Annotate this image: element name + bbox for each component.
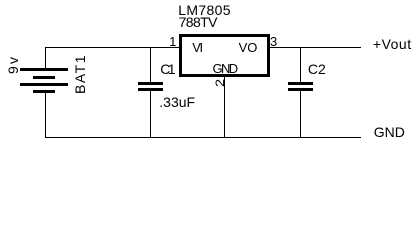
pin number 1 [169, 35, 176, 48]
wire: top rail from battery to regulator pin 1 [45, 47, 180, 48]
pin label VO [239, 41, 258, 54]
label GND (output rail) [374, 125, 405, 139]
wire: C2 bottom lead [300, 91, 301, 137]
pin number 3 [270, 35, 277, 48]
label C2 [308, 62, 326, 76]
capacitor C2 top plate [288, 82, 314, 85]
label 788TV [179, 15, 217, 29]
wire: bottom ground rail [45, 137, 361, 139]
pin label GND [213, 62, 237, 75]
wire: C1 top lead [150, 47, 151, 82]
battery BAT1 plate long [20, 83, 68, 86]
label C1 [160, 62, 173, 76]
label 9v (rotated) [6, 55, 20, 74]
pin number 2 (rotated) [214, 79, 226, 87]
wire: C1 bottom lead [150, 91, 151, 138]
label +Vout [373, 37, 412, 51]
wire: top rail from regulator pin 3 to +Vout [270, 47, 362, 48]
label LM7805 [178, 3, 231, 17]
capacitor C2 bottom plate [288, 88, 314, 92]
regulator U1 LM7805 body [179, 34, 269, 78]
battery BAT1 plate long top [20, 68, 68, 71]
wire: battery negative lead [45, 93, 46, 138]
wire: regulator GND pin 2 lead [224, 77, 225, 138]
battery BAT1 plate short bottom [33, 90, 55, 93]
wire: battery positive lead [45, 47, 46, 69]
label BAT1 (rotated) [73, 54, 87, 94]
label .33uF [159, 95, 195, 109]
battery BAT1 plate short [33, 76, 55, 79]
wire: C2 top lead [300, 47, 301, 82]
capacitor C1 top plate [138, 82, 163, 85]
capacitor C1 bottom plate [138, 88, 163, 91]
pin label VI [192, 41, 201, 54]
